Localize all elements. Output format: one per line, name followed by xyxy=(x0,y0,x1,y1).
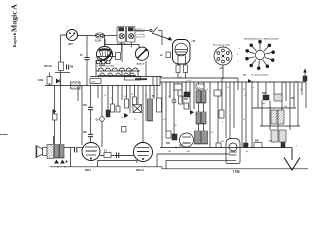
left mid vertical wires xyxy=(78,77,157,148)
choke DR box xyxy=(90,79,101,84)
resistor R18 xyxy=(116,53,121,60)
tube V6 EBL1 xyxy=(82,143,100,161)
resistor R20 xyxy=(122,127,127,133)
junction dots on bus xyxy=(222,77,296,82)
wire loop mid3 xyxy=(166,159,236,161)
svg-text:c: c xyxy=(238,60,239,62)
svg-text:2µ: 2µ xyxy=(111,98,113,100)
capacitor C6 dark xyxy=(263,95,269,100)
rectifier tube V5 xyxy=(226,139,240,164)
wire antenna right to fuse xyxy=(78,35,96,37)
capacitor C14 dark xyxy=(244,143,249,148)
wire speaker top xyxy=(53,136,55,144)
choke coil H1 xyxy=(71,82,81,89)
wire loop mid2 xyxy=(156,154,158,167)
svg-text:800: 800 xyxy=(221,141,224,143)
capacitor C9 xyxy=(254,143,262,148)
coil L6 xyxy=(274,94,282,101)
pointer arrow to V3 xyxy=(152,33,172,40)
margin mark xyxy=(0,134,8,136)
resistor R8 xyxy=(125,99,129,108)
resistor R6 xyxy=(111,104,115,112)
svg-text:µ: µ xyxy=(70,154,71,156)
speaker LS xyxy=(36,145,54,159)
arrow up component xyxy=(303,69,307,83)
antenna socket A1 xyxy=(66,29,77,40)
capacitor C2 xyxy=(67,65,69,70)
svg-text:0,1: 0,1 xyxy=(227,87,230,89)
right mid vertical wires xyxy=(162,78,238,148)
resistor R4 xyxy=(184,65,188,73)
diode D2 on bus xyxy=(248,79,253,83)
junction dots mid xyxy=(61,76,290,86)
wire down from speaker xyxy=(70,148,72,167)
bus connector xyxy=(159,77,161,86)
ground arrow xyxy=(284,148,300,171)
capacitor C13 xyxy=(75,147,77,153)
svg-text:2M: 2M xyxy=(174,125,177,127)
resistor R9 xyxy=(133,97,137,105)
rotary switch rear view xyxy=(246,40,275,69)
svg-text:µF: µF xyxy=(300,89,303,91)
jack circle J2 xyxy=(172,99,176,103)
coil winding arcs row1 xyxy=(96,68,141,71)
IF transformer T2c xyxy=(195,131,208,144)
wire R1 bottom xyxy=(55,72,70,74)
power transformer TR1 xyxy=(271,110,284,124)
svg-text:0,1: 0,1 xyxy=(163,119,166,121)
svg-text:a: a xyxy=(239,48,241,50)
svg-text:Oe: Oe xyxy=(96,120,100,122)
svg-text:10: 10 xyxy=(104,95,106,97)
wire y108 xyxy=(252,107,296,109)
vertical C1 wires xyxy=(54,86,56,145)
wire bottom step xyxy=(161,167,163,169)
jack Oe xyxy=(100,117,105,122)
wire socket lead xyxy=(222,65,224,78)
svg-text:50: 50 xyxy=(57,167,59,169)
dial lamp box 1 xyxy=(117,27,126,43)
svg-text:b: b xyxy=(237,54,238,56)
svg-text:500: 500 xyxy=(168,151,171,153)
bottom bus xyxy=(160,147,292,149)
transformer X1 crossed xyxy=(133,105,142,113)
wire loop mid1 xyxy=(157,153,230,155)
IF transformer T2a xyxy=(196,91,206,104)
capacitor C11 xyxy=(104,153,111,158)
wire between V1 V2 xyxy=(121,44,123,62)
svg-text:50: 50 xyxy=(80,55,83,57)
svg-text:µ: µ xyxy=(253,87,254,89)
bus right upper xyxy=(160,77,238,79)
resistor R17 xyxy=(53,114,58,120)
svg-text:+500: +500 xyxy=(186,151,190,153)
svg-text:Magic A: Magic A xyxy=(10,4,19,32)
svg-text:0,15A: 0,15A xyxy=(95,40,101,43)
svg-text:Fassung von unten: Fassung von unten xyxy=(213,44,231,47)
svg-text:µ: µ xyxy=(296,145,297,147)
dot xyxy=(66,161,68,163)
svg-text:50: 50 xyxy=(243,119,245,121)
resistor R15 xyxy=(219,110,224,118)
svg-text:100k: 100k xyxy=(38,80,44,82)
resistor R11 xyxy=(174,84,182,90)
note text block xyxy=(136,29,146,39)
resistor R16 xyxy=(166,131,171,138)
svg-text:500: 500 xyxy=(83,105,88,107)
bus right lower xyxy=(160,81,306,83)
wire transformer right xyxy=(64,147,74,149)
resistor R3 xyxy=(176,65,180,73)
resistor R2 xyxy=(47,77,52,85)
label rotary left xyxy=(237,48,241,62)
wire V3 leads xyxy=(178,64,186,78)
svg-text:8µF: 8µF xyxy=(262,103,266,105)
svg-text:µ12: µ12 xyxy=(220,68,225,70)
capacitor C1 xyxy=(85,36,90,86)
resistor R12 dark xyxy=(184,92,190,97)
svg-text:0,5: 0,5 xyxy=(211,132,214,134)
svg-text:12: 12 xyxy=(180,77,182,79)
svg-text:500: 500 xyxy=(83,132,88,134)
wire loop bottom xyxy=(98,160,138,162)
socket view circle xyxy=(214,46,232,65)
tube V2 oscillator xyxy=(135,47,148,60)
mains transformer TR2 xyxy=(271,130,286,142)
vertical from antenna line xyxy=(60,86,62,145)
bus mid upper xyxy=(90,76,162,78)
resistor R5 dark xyxy=(106,110,110,117)
tube V7 EBL21 xyxy=(134,143,153,162)
wire IFT link1 xyxy=(199,103,204,112)
diode D1 xyxy=(56,79,60,84)
svg-text:0,1: 0,1 xyxy=(244,95,246,97)
capacitor C5 xyxy=(196,84,204,89)
junction dots bottom xyxy=(175,147,283,148)
svg-text:50: 50 xyxy=(121,117,123,119)
svg-text:1M: 1M xyxy=(168,96,171,98)
svg-text:ANT: ANT xyxy=(68,43,73,46)
svg-text:5M: 5M xyxy=(70,67,73,69)
wire antenna left xyxy=(61,35,67,86)
svg-text:30: 30 xyxy=(206,89,208,91)
svg-text:50: 50 xyxy=(64,167,66,169)
svg-text:0,1: 0,1 xyxy=(104,151,108,153)
svg-text:50: 50 xyxy=(243,89,245,91)
wire left column xyxy=(49,84,51,86)
fuse Si xyxy=(96,33,105,38)
svg-text:a b c d: a b c d xyxy=(186,80,191,82)
wire fuse to lamp box xyxy=(104,35,117,37)
IF transformer T2b xyxy=(196,112,206,124)
IF coil L5 xyxy=(148,99,153,121)
junction node at V1 grid xyxy=(104,35,105,36)
wire under fuse xyxy=(105,39,139,47)
svg-text:µ: µ xyxy=(96,150,97,152)
svg-text:gezeichnet: gezeichnet xyxy=(136,36,146,39)
svg-text:500: 500 xyxy=(166,143,171,145)
capacitor C10 dark xyxy=(281,143,285,148)
small tube V4 xyxy=(180,133,194,147)
svg-text:500+50: 500+50 xyxy=(44,66,52,68)
svg-text:Drehkondensator u. Wellenschal: Drehkondensator u. Wellenschalter xyxy=(244,38,279,41)
wire loop mid4 xyxy=(165,160,167,169)
extra vertical wires mid xyxy=(96,60,302,139)
svg-text:Kapsch: Kapsch xyxy=(12,32,17,47)
svg-text:µ: µ xyxy=(196,114,197,116)
dial lamp box 2 xyxy=(127,27,136,43)
capacitor C3 xyxy=(88,107,93,109)
svg-text:EBL1: EBL1 xyxy=(85,169,92,172)
svg-text:1 770/5: 1 770/5 xyxy=(233,172,241,174)
output transformer TR3 xyxy=(55,145,65,159)
svg-text:µ: µ xyxy=(222,121,223,123)
wire IFT link2 xyxy=(199,124,204,131)
diode D4 xyxy=(190,110,194,115)
svg-text:DRO: DRO xyxy=(92,82,97,84)
wire to V6 xyxy=(77,147,83,149)
right col vertical wires xyxy=(242,82,306,148)
svg-text:Skalenbel.: Skalenbel. xyxy=(136,31,145,33)
resistor EM box xyxy=(166,52,171,58)
resistor R13 xyxy=(214,90,221,96)
tube V3 EM4 xyxy=(173,40,191,65)
svg-text:0,1: 0,1 xyxy=(197,87,200,89)
diode D3 xyxy=(124,113,129,118)
diode D5 xyxy=(54,160,59,164)
diode D6 xyxy=(60,160,65,164)
svg-text:n. Schaltg.: n. Schaltg. xyxy=(136,33,145,36)
title Kapsch Magic A xyxy=(10,4,19,48)
switch frame box xyxy=(125,77,141,80)
svg-text:+: + xyxy=(300,66,302,68)
wire y126 xyxy=(260,125,300,127)
svg-text:0,5: 0,5 xyxy=(134,119,137,121)
svg-text:A000-0I: A000-0I xyxy=(137,63,145,66)
resistor R10 xyxy=(157,98,162,112)
svg-text:AM: AM xyxy=(243,74,246,77)
capacitor C12 xyxy=(117,153,119,159)
main bus left xyxy=(45,85,160,87)
capacitor C8 xyxy=(216,143,221,148)
wire bottom left xyxy=(50,166,162,168)
dark bar xyxy=(135,78,147,80)
wire down to tube V1 xyxy=(104,36,106,47)
svg-text:+4V: +4V xyxy=(191,40,196,43)
wire lamp leads xyxy=(121,42,123,53)
capacitor C4 xyxy=(88,134,93,136)
svg-text:von hinten gesehen: von hinten gesehen xyxy=(251,74,270,77)
resistor R7 xyxy=(116,106,120,112)
svg-text:50: 50 xyxy=(152,96,155,98)
svg-text:800: 800 xyxy=(255,141,260,143)
coil small boxes row xyxy=(97,61,111,64)
tube V1 ACH1 mixer xyxy=(97,47,119,63)
wire bottom right xyxy=(162,168,308,170)
svg-text:EBL21: EBL21 xyxy=(136,169,144,172)
resistor R19 xyxy=(179,96,184,104)
capacitor C7 dark xyxy=(172,134,177,140)
diode D7 xyxy=(53,109,57,114)
wire between V6 V7 xyxy=(100,155,134,157)
svg-text:µ4: µ4 xyxy=(246,151,248,153)
mains switch S1 xyxy=(134,27,162,45)
svg-text:50: 50 xyxy=(131,94,133,96)
wire R2 top xyxy=(49,73,51,77)
resistor R14 xyxy=(184,103,189,109)
resistor R1 xyxy=(59,62,64,71)
svg-text:EM: EM xyxy=(160,55,163,57)
svg-text:c 25antenna L-Bw: c 25antenna L-Bw xyxy=(97,65,114,68)
svg-text:500: 500 xyxy=(184,99,189,101)
coil winding arcs row2 xyxy=(98,73,136,75)
